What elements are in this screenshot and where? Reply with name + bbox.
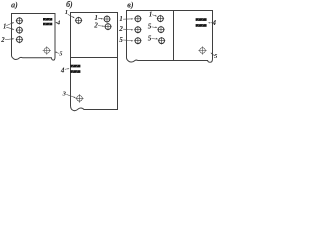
terminal circle a-T3 (16, 36, 23, 43)
label 1 (a) with forked leader (3, 22, 14, 30)
svg-text:а): а) (11, 1, 18, 10)
ground screw circle b-3 (75, 94, 83, 103)
terminal circle v-L3 (134, 37, 141, 44)
terminal circle v-L2 (134, 26, 141, 33)
divider line in box v (173, 11, 175, 61)
svg-text:4: 4 (56, 20, 61, 27)
label 4 (b) with arrow (60, 67, 70, 75)
svg-text:1: 1 (65, 9, 68, 16)
svg-text:2: 2 (93, 21, 98, 29)
svg-text:1: 1 (3, 24, 6, 31)
svg-text:2: 2 (0, 37, 5, 44)
svg-text:б): б) (66, 0, 73, 9)
svg-text:1: 1 (119, 15, 123, 23)
label 2 (a) with leader (0, 37, 14, 44)
terminal circle v-M2 (157, 26, 164, 33)
terminal circle v-M1 (157, 15, 164, 22)
label 5 (v mid upper) with leader (148, 22, 158, 30)
hatched bar b-4b (70, 70, 80, 73)
label 1 (b right pair) with leader (94, 14, 103, 22)
svg-text:5: 5 (119, 36, 123, 44)
hatched bar v-4a (196, 18, 207, 21)
svg-text:4: 4 (211, 19, 216, 27)
terminal circle b-T1 (75, 17, 82, 24)
terminal circle v-M3 (158, 37, 165, 44)
svg-text:5: 5 (148, 22, 152, 30)
label 5 (a) with leader (55, 51, 64, 58)
label 2 (b right pair) with leader (93, 21, 104, 29)
box v outline (127, 11, 213, 63)
terminal circle a-T2 (16, 26, 23, 33)
hatched bar b-4a (70, 65, 80, 68)
label 1 (b top-left) with leader (65, 9, 75, 18)
terminal circle b-T2 (103, 15, 110, 22)
label 2 (v left) with leader (118, 25, 133, 33)
box b outline with bottom-left notch (71, 13, 118, 111)
svg-text:2: 2 (118, 25, 123, 33)
hatched bar v-4b (196, 24, 207, 27)
terminal circle a-T1 (16, 17, 23, 24)
label 3 (b) with leader (62, 90, 76, 98)
hatched bar a-4a (43, 18, 52, 21)
label 5 (v mid lower) with leader (148, 34, 158, 42)
terminal circle b-T3 (104, 23, 111, 30)
svg-text:5: 5 (148, 34, 152, 42)
screw hole circle a-5 (43, 46, 51, 54)
svg-text:в): в) (127, 0, 134, 9)
label 5 (v bottom) with leader (210, 53, 218, 60)
svg-text:1: 1 (149, 10, 153, 18)
label 4 (a) with arrow (55, 20, 61, 27)
hatched bar a-4b (43, 23, 52, 26)
label 5 (v left) with leader (119, 36, 133, 44)
label 1 (v left) with leader (119, 15, 133, 23)
box a outline (12, 14, 56, 61)
label 1 (v mid) with leader (149, 10, 157, 18)
label 4 (v) with arrow (208, 19, 216, 27)
screw hole circle v-5 (198, 46, 206, 54)
divider line in box b (71, 57, 118, 59)
svg-text:3: 3 (62, 90, 67, 97)
svg-text:4: 4 (60, 67, 65, 75)
terminal circle v-L1 (134, 15, 141, 22)
